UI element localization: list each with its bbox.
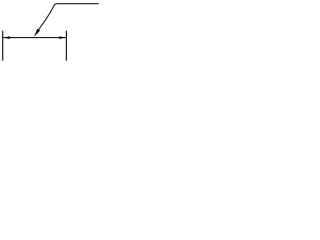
- leader line: [39, 4, 99, 30]
- extension line left: [2, 31, 4, 61]
- dimension line: [3, 37, 66, 39]
- arrowhead right: [59, 36, 66, 39]
- leader arrowhead: [34, 29, 40, 37]
- extension line right: [65, 31, 67, 61]
- arrowhead left: [3, 36, 10, 39]
